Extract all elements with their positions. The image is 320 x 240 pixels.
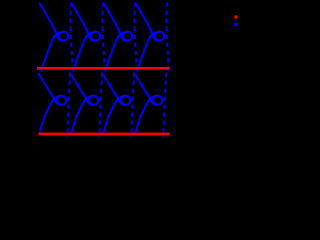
wire top entry curve unit 4 [135,3,158,41]
wire top exit curve unit 4 [137,32,157,72]
wire top dashed line at x=103 [102,3,104,75]
wire top exit curve unit 3 [105,32,125,72]
legend marker blue [234,23,237,26]
node loop circle top unit 1 [59,32,68,41]
wire bottom entry curve unit 1 [38,73,60,105]
node loop circle top unit 2 [91,32,100,41]
wire bottom exit curve unit 3 [104,96,123,134]
wire bottom dashed line at x=166 [163,73,166,138]
node loop circle bottom unit 1 [57,96,66,105]
wire bottom entry curve unit 4 [134,73,156,105]
node loop circle bottom unit 4 [153,96,162,105]
wire top entry curve unit 3 [103,3,126,41]
wire top dashed line at x=167 [166,3,168,75]
wire top dashed line at x=71 [70,3,72,75]
red baseline bottom row [39,133,170,136]
wire bottom dashed line at x=70 [67,73,70,138]
wire bottom entry curve unit 2 [70,73,92,105]
wire bottom dashed line at x=102 [99,73,102,138]
wire top entry curve unit 1 [39,3,62,41]
red baseline top row [37,67,169,70]
wire bottom dashed line at x=134 [131,73,134,138]
wire top dashed line at x=135 [134,3,136,75]
wire top exit curve unit 2 [73,32,93,72]
legend marker red [234,15,237,18]
wire bottom exit curve unit 2 [72,96,91,134]
wire bottom entry curve unit 3 [102,73,124,105]
node loop circle top unit 4 [155,32,164,41]
wire top entry curve unit 2 [71,3,94,41]
node loop circle bottom unit 3 [121,96,130,105]
node loop circle bottom unit 2 [89,96,98,105]
node loop circle top unit 3 [123,32,132,41]
wire bottom exit curve unit 1 [40,96,59,134]
wire bottom exit curve unit 4 [136,96,155,134]
wire top exit curve unit 1 [41,32,61,72]
